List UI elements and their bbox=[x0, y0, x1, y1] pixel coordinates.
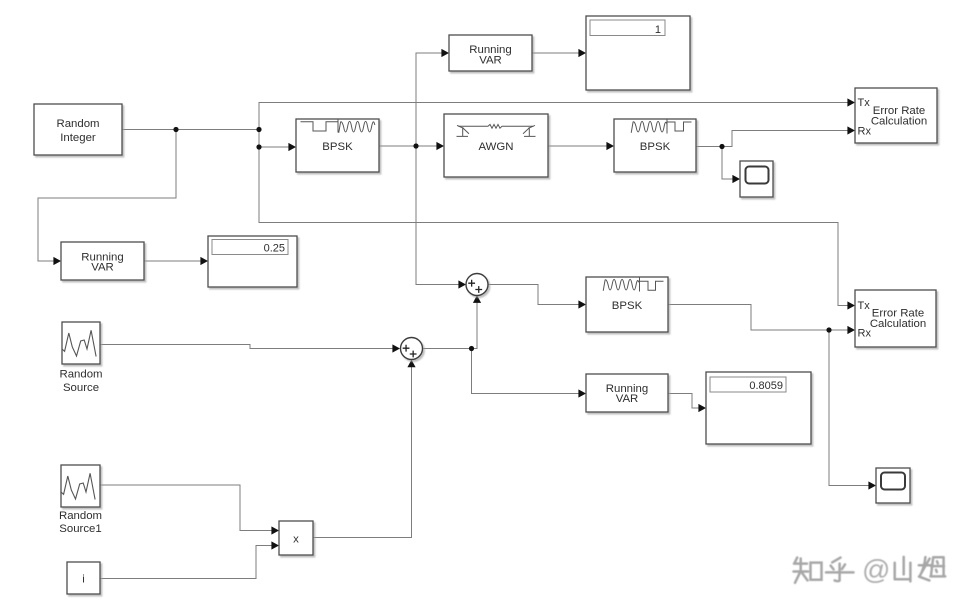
svg-text:Calculation: Calculation bbox=[870, 318, 926, 330]
wire Running VAR2 to Display2 bbox=[144, 260, 201, 262]
arrow into Product lower bbox=[271, 541, 279, 549]
svg-text:BPSK: BPSK bbox=[322, 141, 353, 153]
arrow into ERC2 Tx bbox=[847, 301, 855, 309]
antenna left bbox=[457, 126, 469, 137]
junction BPSK1 output bbox=[413, 143, 418, 148]
sum block Sum1 bbox=[466, 274, 488, 296]
svg-text:VAR: VAR bbox=[479, 54, 502, 66]
ARROWHEADS bbox=[53, 49, 876, 550]
svg-text:Random: Random bbox=[56, 118, 99, 130]
wire Product output to Sum2 bottom bbox=[313, 366, 412, 538]
wire AWGN output to BPSK2 bbox=[548, 145, 607, 147]
watermark char Shan bbox=[895, 557, 911, 582]
block Display3 value 0.8059 bbox=[706, 372, 811, 444]
block Random Source1 bbox=[59, 465, 102, 535]
wire Tx line to Error Rate Calculation 2 bbox=[259, 223, 848, 306]
watermark char Zhi bbox=[794, 558, 809, 583]
svg-text:Integer: Integer bbox=[60, 132, 96, 144]
block Scope2 bbox=[876, 468, 910, 503]
wire Running VAR3 to Display3 bbox=[668, 394, 699, 409]
watermark Zhihu @Shanmu bbox=[794, 554, 946, 585]
svg-text:AWGN: AWGN bbox=[478, 141, 513, 153]
wire BPSK2 output to ERC1 Rx bbox=[696, 131, 848, 147]
arrow into ERC2 Rx bbox=[847, 326, 855, 334]
wire Random Source to Sum2 bbox=[100, 345, 393, 349]
arrow into Sum2 left bbox=[392, 344, 400, 352]
svg-text:Tx: Tx bbox=[858, 97, 871, 109]
svg-text:Rx: Rx bbox=[858, 126, 872, 138]
svg-text:VAR: VAR bbox=[91, 262, 114, 274]
svg-text:BPSK: BPSK bbox=[640, 141, 671, 153]
wire branch down-left to Running VAR2 input bbox=[38, 130, 176, 262]
watermark char Hu bbox=[826, 558, 854, 582]
junction on ERC2 Rx wire bbox=[826, 327, 831, 332]
arrow into Sum1 left bbox=[458, 280, 466, 288]
wire BPSK3 output to ERC2 Rx bbox=[668, 305, 848, 331]
svg-text:Source: Source bbox=[63, 382, 99, 394]
block constant i bbox=[67, 562, 100, 594]
block Display2 value 0.25 bbox=[208, 236, 297, 287]
wire i constant to Product lower input bbox=[100, 546, 272, 579]
block Display1 value 1 bbox=[586, 16, 690, 90]
wire into BPSK1 input bbox=[259, 146, 289, 148]
svg-text:Random: Random bbox=[59, 510, 102, 522]
svg-text:1: 1 bbox=[655, 24, 661, 36]
JUNCTION DOTS bbox=[173, 127, 831, 351]
watermark char Mu bbox=[919, 557, 931, 580]
arrow into Running VAR1 bbox=[441, 49, 449, 57]
svg-text:x: x bbox=[293, 534, 299, 546]
wire branch to Scope2 bbox=[829, 330, 869, 486]
arrow into Display2 bbox=[200, 257, 208, 265]
arrow into Running VAR3 bbox=[578, 389, 586, 397]
block Error Rate Calculation 2 bbox=[855, 290, 936, 347]
arrow into Scope1 bbox=[732, 175, 740, 183]
noise line bbox=[459, 124, 533, 128]
arrow into Display3 bbox=[698, 404, 706, 412]
block Scope1 bbox=[740, 161, 773, 197]
block Error Rate Calculation 1 bbox=[855, 88, 937, 143]
junction at x259 BPSK branch bbox=[256, 144, 261, 149]
wire Random Integer output to junction x259 bbox=[122, 129, 259, 131]
block BPSK2 demodulator bbox=[614, 119, 696, 172]
wire Random Source1 to Product upper input bbox=[100, 485, 272, 531]
svg-text:0.8059: 0.8059 bbox=[749, 380, 783, 392]
arrow into Product upper bbox=[271, 526, 279, 534]
arrow into Scope2 bbox=[868, 481, 876, 489]
arrow into Running VAR2 bbox=[53, 257, 61, 265]
svg-text:@: @ bbox=[862, 554, 890, 585]
arrow into Display1 bbox=[578, 49, 586, 57]
junction Sum2 output bbox=[469, 346, 474, 351]
arrow into Sum1 bottom bbox=[473, 295, 481, 303]
block BPSK1 modulator bbox=[296, 119, 379, 172]
block Random Source bbox=[59, 322, 102, 394]
wire Sum1 output to BPSK3 bbox=[488, 285, 579, 305]
wire BPSK1 output to AWGN bbox=[379, 145, 437, 147]
arrow into Sum2 bottom bbox=[407, 360, 415, 368]
block AWGN channel bbox=[444, 114, 548, 177]
block Running VAR 2 (left) bbox=[61, 242, 144, 280]
arrow into ERC1 Rx bbox=[847, 126, 855, 134]
wire Running VAR1 to Display1 bbox=[532, 52, 579, 54]
block Running VAR 1 (top) bbox=[449, 35, 532, 71]
wire Sum2 output to Sum1 bottom bbox=[423, 302, 477, 349]
arrow into BPSK2 bbox=[606, 142, 614, 150]
svg-text:Tx: Tx bbox=[858, 300, 871, 312]
junction BPSK2 output bbox=[719, 144, 724, 149]
block Random Integer bbox=[34, 104, 122, 155]
arrow into ERC1 Tx bbox=[847, 98, 855, 106]
sum block Sum2 bbox=[401, 338, 423, 360]
wire branch to Running VAR3 bbox=[472, 349, 580, 394]
arrow into BPSK1 bbox=[288, 143, 296, 151]
block BPSK3 modulator (bottom) bbox=[586, 277, 668, 332]
svg-text:VAR: VAR bbox=[616, 393, 639, 405]
svg-text:Calculation: Calculation bbox=[871, 116, 927, 128]
wire vertical bus at x259 bbox=[258, 103, 260, 223]
svg-text:BPSK: BPSK bbox=[612, 300, 643, 312]
wire branch to Scope1 bbox=[722, 147, 733, 180]
svg-text:i: i bbox=[82, 574, 85, 586]
svg-text:Random: Random bbox=[59, 369, 102, 381]
svg-text:Source1: Source1 bbox=[59, 523, 101, 535]
svg-text:0.25: 0.25 bbox=[264, 243, 285, 255]
block Running VAR 3 (bottom) bbox=[586, 374, 668, 412]
arrow into AWGN bbox=[436, 142, 444, 150]
arrow into BPSK3 bbox=[578, 300, 586, 308]
junction at x259 top bbox=[256, 127, 261, 132]
junction on Random Integer wire bbox=[173, 127, 178, 132]
antenna right bbox=[523, 126, 535, 137]
wire Tx line to Error Rate Calculation 1 bbox=[259, 102, 848, 104]
wire vertical bus x416 to Running VAR1 and Sum1 bbox=[416, 53, 459, 285]
block Product x bbox=[279, 521, 313, 555]
